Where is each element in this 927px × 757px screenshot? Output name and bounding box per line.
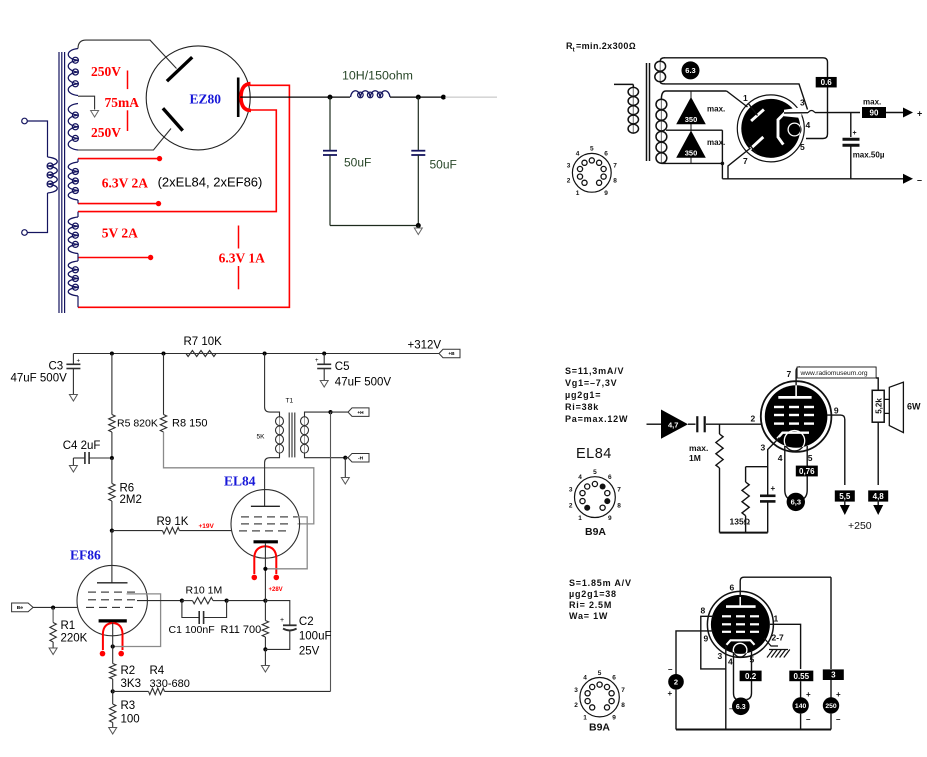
node EL84 cathode-R11 (263, 599, 267, 603)
capacitor 50uF (second) (411, 97, 425, 225)
svg-text:47uF 500V: 47uF 500V (11, 373, 68, 385)
label 6.3V 2A (102, 176, 149, 191)
EZ80-ds anode 1 lead (black over bar) (748, 103, 758, 116)
label 6.3V 1A (219, 250, 266, 265)
EL84-ds socket B9A (569, 469, 621, 522)
wire R5 bottom (111, 432, 113, 458)
EL84-ds label B9A (585, 526, 606, 538)
wire EF86 plate to R9 node (111, 531, 113, 583)
wire to choke (330, 96, 350, 98)
svg-text:6: 6 (608, 474, 612, 481)
label R11 700 (221, 624, 262, 636)
EL84-ds label EL84 (576, 446, 612, 462)
wire primary top lead (27, 121, 47, 157)
node rail-C5 (322, 352, 326, 356)
wire B+ rail (73, 353, 439, 355)
EL84-ds wire arrow to cap (688, 423, 696, 425)
svg-text:-H: -H (358, 455, 364, 461)
EF86-ds pin9 wire (676, 631, 714, 676)
svg-text:2: 2 (751, 414, 756, 424)
EF86-ds wire 0.55 to 140 (800, 681, 802, 697)
transformer T1 secondary winding (301, 412, 346, 458)
wire HV top lead to EZ80 anode 1 (78, 40, 177, 68)
EF86-ds plate bar (white) (726, 605, 756, 608)
power transformer primary winding (47, 157, 57, 193)
EZ80-ds anode 2 (white) (750, 137, 763, 149)
svg-text:8: 8 (621, 702, 625, 709)
EF86-ds label pin8 (701, 606, 706, 616)
EF86-ds disc 250 (823, 690, 841, 724)
svg-text:Ri= 2.5M: Ri= 2.5M (569, 600, 612, 610)
resistor R1 220K (50, 608, 56, 648)
EF86-ds tube outer circle (707, 591, 773, 657)
label 250V (upper) (91, 64, 121, 79)
EF86-ds label B9A (589, 722, 610, 734)
EF86-ds spec text (569, 578, 632, 621)
label EZ80 (190, 92, 222, 107)
label +19V (199, 523, 215, 530)
EL84 grid g2 (dashes) (241, 523, 288, 525)
EL84-ds box 4,8 (868, 490, 888, 501)
svg-text:8: 8 (617, 502, 621, 509)
svg-text:µg2g1=38: µg2g1=38 (569, 589, 617, 599)
EF86-ds label pin6 (730, 583, 735, 593)
EF86-ds label pin5 (750, 655, 755, 665)
tube EF86 envelope (77, 565, 147, 635)
wire secondary to +H (331, 411, 349, 413)
svg-text:90: 90 (870, 108, 879, 117)
choke 10H/150ohm (351, 91, 391, 98)
EZ80-ds socket B9A (567, 146, 617, 197)
svg-text:9: 9 (704, 634, 709, 644)
EL84 grid g1 (dashes) (239, 530, 286, 532)
EF86-ds wire 3 to 250 (830, 680, 832, 698)
EL84-ds box 0,76 (796, 466, 818, 477)
wire input to EF86 grid (33, 606, 77, 608)
EF86-ds cathode (white) (727, 640, 755, 645)
label R9 1K (157, 516, 189, 528)
svg-text:4: 4 (583, 675, 587, 682)
wire EL84 cathode down (264, 543, 266, 620)
wire 6.3V 2A top lead (red) (78, 159, 158, 162)
EL84-ds tube body (black) (765, 385, 828, 448)
wire 6.3V 1A bottom spine (77, 296, 79, 307)
svg-text:3: 3 (800, 98, 805, 108)
svg-text:5: 5 (800, 142, 805, 152)
resistor R5 820K (109, 415, 115, 433)
EZ80-ds wire to plus arrow (886, 112, 903, 114)
EL84-ds plate bar (white) (778, 396, 811, 399)
node filter ground (416, 223, 421, 228)
size marker 250V-250V (red) (127, 71, 129, 132)
svg-text:C5: C5 (335, 361, 350, 373)
svg-text:+: + (315, 358, 319, 364)
svg-text:R11 700: R11 700 (221, 624, 262, 636)
EF86-ds heater disc 6.3 (729, 698, 750, 716)
EZ80-ds 6.3V heater winding (655, 58, 666, 84)
svg-text:EZ80: EZ80 (190, 92, 222, 107)
EF86-ds ground hatches (2-7) (767, 650, 790, 658)
svg-text:7: 7 (787, 369, 792, 379)
svg-text:–: – (668, 665, 673, 674)
node R11-C2 bottom (263, 647, 267, 651)
svg-text:7: 7 (613, 163, 617, 170)
EL84-ds bottom rail (720, 532, 768, 534)
EL84-ds coupling capacitor (697, 416, 704, 432)
EF86-ds heater circle (outside part) (733, 643, 747, 657)
EF86 grid row3 (dashes) (86, 606, 133, 608)
ground (R11) (261, 666, 269, 673)
EZ80-ds transformer core (647, 63, 650, 161)
svg-text:0.55: 0.55 (794, 672, 810, 681)
label 10H/150ohm (342, 69, 413, 83)
label R3 (121, 700, 136, 712)
EL84-ds pin7 lead (796, 367, 800, 398)
EL84-ds heater disc 6,3 (787, 493, 805, 511)
resistor R4 330-680 (113, 688, 331, 694)
EZ80 cathode heater (red arc) (241, 84, 251, 111)
EL84-ds input arrow 4,7 (661, 410, 688, 439)
svg-text:R5 820K: R5 820K (117, 418, 158, 430)
svg-text:140: 140 (795, 703, 807, 710)
resistor R7 10K (186, 351, 216, 357)
flag Be (input) (12, 603, 33, 612)
wire primary bottom lead (27, 193, 47, 233)
ground (filter) (414, 226, 422, 235)
node rail-R8 (162, 352, 166, 356)
svg-text:4: 4 (728, 657, 733, 667)
capacitor C4 (73, 452, 112, 465)
resistor R8 150 (160, 415, 166, 433)
EL84-ds cathode capacitor (760, 484, 776, 533)
svg-text:+: + (806, 690, 811, 699)
node rail-R5 (110, 352, 114, 356)
svg-text:R4: R4 (150, 665, 165, 677)
EZ80-ds label pin3 (800, 98, 805, 108)
resistor R6 2M2 (109, 458, 115, 531)
wire choke to node (390, 96, 418, 98)
svg-text:2: 2 (569, 502, 573, 509)
EZ80-ds triangle 350 max (upper) (676, 97, 725, 124)
EL84 heater terminal (right) (274, 575, 280, 581)
EL84 heater (red) (254, 546, 276, 574)
EL84-ds label +250 (848, 520, 872, 532)
EF86-ds box 0.2 (740, 671, 762, 682)
EZ80-ds 6.3 heater disc (682, 61, 700, 79)
ground (C4) (69, 466, 77, 473)
EL84-ds heater circle (white inside) (784, 431, 804, 451)
svg-text:1M: 1M (689, 453, 701, 463)
svg-text:Pa=max.12W: Pa=max.12W (565, 414, 628, 424)
wire 5V winding top spine (77, 212, 79, 217)
svg-text:(2xEL84, 2xEF86): (2xEL84, 2xEF86) (158, 175, 263, 190)
svg-text:135Ω: 135Ω (730, 517, 751, 527)
EZ80-ds minus rail (722, 178, 903, 180)
EF86 heater (red) (103, 623, 123, 650)
node T1 secondary bottom (343, 456, 347, 460)
EZ80 cathode bar (237, 78, 240, 118)
svg-text:25V: 25V (299, 645, 320, 657)
label R5 820K (117, 418, 158, 430)
svg-text:+B: +B (448, 351, 455, 357)
label EF86 (amp) (70, 548, 101, 563)
EZ80-ds wire HV center tap (666, 129, 722, 131)
capacitor C3 (66, 354, 80, 395)
wire R10 to EL84 cathode node (227, 600, 266, 602)
resistor R3 100 (110, 691, 116, 727)
svg-text:5K: 5K (257, 434, 266, 441)
svg-text:0,76: 0,76 (799, 467, 815, 476)
svg-text:0.6: 0.6 (821, 78, 833, 87)
rectifier tube EZ80 envelope (146, 46, 250, 150)
EL84-ds cathode resistor 135 (742, 467, 768, 533)
label 330-680 (150, 678, 190, 690)
svg-text:350: 350 (685, 115, 698, 124)
EF86-ds wire 140 to rail (800, 714, 802, 730)
svg-text:250: 250 (825, 703, 837, 710)
svg-text:+250: +250 (848, 520, 872, 532)
flag -H (348, 453, 369, 462)
EZ80-ds tube outer circle (737, 95, 804, 162)
EZ80-ds label pin5 (800, 142, 805, 152)
svg-text:350: 350 (685, 149, 698, 158)
svg-text:4: 4 (778, 453, 783, 463)
EF86-ds pin4 lead (734, 652, 738, 700)
EF86 top-row to cathode wire (114, 594, 161, 647)
svg-text:10H/150ohm: 10H/150ohm (342, 69, 413, 83)
EF86 heater terminal (left) (100, 651, 106, 657)
power transformer primary terminal (bottom) (22, 230, 28, 236)
EZ80-ds box 0.6 (816, 77, 837, 88)
EF86-ds grid2-7 ground wire (764, 638, 778, 646)
label 250V (lower) (91, 125, 121, 140)
wire R8 top (163, 354, 165, 415)
label R10 1M (186, 584, 223, 596)
svg-text:Vg1=–7,3V: Vg1=–7,3V (565, 378, 617, 388)
flag +B (439, 349, 460, 358)
EZ80-ds label pin7 (743, 156, 748, 166)
EF86-ds label pin1 (774, 614, 779, 624)
EL84-ds arrow 4,8 down (873, 502, 883, 515)
label C2 (299, 616, 314, 628)
EZ80 anode plate 1 (167, 57, 192, 81)
label C1 100nF (169, 624, 215, 636)
feedback wire +H to R4 (330, 412, 332, 691)
EZ80-ds anode 2 lead (black over bar) (747, 142, 757, 154)
node R10 left (180, 599, 184, 603)
EL84-ds spec text (565, 366, 628, 424)
EZ80-ds label pin4 (806, 120, 811, 130)
EF86 heater terminal (right) (118, 651, 124, 657)
EL84-ds grid dashes row2 (white) (774, 414, 814, 416)
label R4 (150, 665, 165, 677)
label C3 value (11, 373, 68, 385)
svg-text:3: 3 (761, 443, 766, 453)
EZ80-ds box 90 (862, 107, 886, 118)
svg-text:8: 8 (701, 606, 706, 616)
label Rt=min.2x300ohm (566, 41, 636, 54)
svg-text:C4 2uF: C4 2uF (63, 440, 101, 452)
EZ80-ds plus arrow (903, 108, 922, 119)
svg-text:5: 5 (593, 469, 597, 476)
EL84-ds label 6W (907, 402, 921, 412)
EL84-ds pin3 wire (768, 438, 780, 496)
svg-text:R10 1M: R10 1M (186, 584, 223, 596)
svg-text:6.3V 2A: 6.3V 2A (102, 176, 149, 191)
svg-text:Wa= 1W: Wa= 1W (569, 611, 608, 621)
ground (-H) (341, 478, 349, 485)
rectifier heater winding 5V 2A (68, 217, 78, 254)
svg-text:1: 1 (583, 715, 587, 722)
svg-text:3K3: 3K3 (121, 678, 141, 690)
HV secondary winding 250V (lower half) (68, 104, 78, 151)
svg-text:9: 9 (604, 190, 608, 197)
svg-text:9: 9 (834, 406, 839, 416)
svg-text:C1 100nF: C1 100nF (169, 624, 215, 636)
power transformer primary terminal (top) (22, 118, 28, 124)
label R8 150 (172, 418, 207, 430)
EF86-ds wire 250 to rail (830, 714, 832, 730)
HV secondary winding 250V (upper half) (68, 49, 78, 96)
capacitor C1 100nF (parallel loop) (182, 601, 227, 624)
wire EF86 cathode (112, 623, 114, 664)
flag +H (348, 408, 369, 417)
EL84-ds grid dashes row3 (white) (774, 422, 814, 424)
node T1 secondary top (328, 410, 332, 414)
svg-text:Be: Be (17, 605, 23, 611)
svg-text:+: + (280, 617, 284, 624)
svg-text:www.radiomuseum.org: www.radiomuseum.org (800, 370, 868, 377)
svg-text:T1: T1 (286, 398, 294, 405)
svg-text:6: 6 (612, 675, 616, 682)
svg-text:2: 2 (567, 178, 571, 185)
ground (C3) (69, 395, 77, 402)
svg-text:max.: max. (863, 98, 881, 107)
label 2M2 (120, 494, 142, 506)
EL84 plate bar (251, 505, 280, 507)
EL84 suppressor to cathode wire (267, 517, 308, 569)
svg-text:C3: C3 (49, 361, 64, 373)
svg-text:+28V: +28V (269, 587, 283, 593)
EL84-ds resistor 5,2k box (872, 390, 884, 422)
svg-text:1: 1 (576, 190, 580, 197)
EZ80-ds cathode (white) (778, 113, 785, 145)
ground (HV center tap) (91, 111, 99, 118)
heater winding 6.3V 1A (68, 261, 78, 296)
svg-text:3: 3 (569, 487, 573, 494)
svg-text:+H: +H (357, 410, 364, 416)
node EF86 cathode (111, 644, 115, 648)
svg-text:6.3: 6.3 (685, 66, 695, 75)
svg-text:=min.2x300Ω: =min.2x300Ω (576, 41, 636, 51)
EZ80-ds wire to minus rail (721, 130, 723, 179)
node B+ out (441, 95, 446, 100)
transformer T1 core (289, 413, 295, 458)
svg-text:4: 4 (806, 120, 811, 130)
svg-text:1: 1 (774, 614, 779, 624)
svg-text:+: + (668, 689, 673, 698)
svg-text:EL84: EL84 (576, 446, 612, 462)
svg-text:220K: 220K (61, 633, 88, 645)
svg-text:4: 4 (576, 150, 580, 157)
svg-text:5,5: 5,5 (839, 492, 851, 501)
capacitor 50uF (first) (323, 97, 337, 225)
node R10 right (225, 599, 229, 603)
EL84-ds radiomuseum box (797, 367, 876, 378)
EF86-ds top wire pin6 (744, 576, 831, 578)
svg-text:+: + (771, 484, 776, 493)
label 5V 2A (102, 225, 138, 240)
wire filter output (418, 96, 442, 98)
EF86-ds socket B9A (574, 670, 625, 722)
EZ80-ds wire cathode output (784, 112, 860, 115)
svg-text:7: 7 (617, 487, 621, 494)
svg-text:+: + (77, 359, 81, 365)
svg-text:6: 6 (730, 583, 735, 593)
svg-text:250V: 250V (91, 64, 121, 79)
svg-text:330-680: 330-680 (150, 678, 190, 690)
EF86-ds label pin4 (728, 657, 733, 667)
EZ80-ds wire anode1 diagonal (727, 91, 748, 107)
svg-text:5: 5 (598, 670, 602, 677)
resistor R9 1K (112, 527, 232, 533)
svg-text:+: + (853, 130, 857, 137)
svg-text:1: 1 (743, 93, 748, 103)
label C4 2uF (63, 440, 101, 452)
node filter output (416, 95, 421, 100)
resistor R11 700 (262, 621, 268, 650)
EL84-ds grid dashes row1 (white) (774, 406, 814, 408)
EZ80-ds node hv-tube-junction (721, 162, 725, 166)
EL84-ds label pin9 (834, 406, 839, 416)
capacitor C5 (315, 354, 331, 381)
svg-text:6,3: 6,3 (791, 498, 801, 507)
EZ80-ds anode 1 (white) (751, 110, 764, 121)
svg-text:max.: max. (707, 138, 725, 147)
EL84 heater terminal (left) (252, 575, 258, 581)
EZ80 anode plate 2 (163, 108, 183, 130)
svg-text:3: 3 (718, 651, 723, 661)
svg-text:EF86: EF86 (70, 548, 101, 563)
EZ80-ds filter capacitor (843, 113, 860, 180)
EL84-ds wire top to speaker branch (876, 378, 878, 390)
svg-text:R2: R2 (121, 665, 136, 677)
wire B+ stub (445, 96, 497, 98)
EL84-ds heater circle (outside part) (784, 431, 804, 451)
svg-text:4,8: 4,8 (873, 492, 885, 501)
label R2 (121, 665, 136, 677)
EF86-ds bottom rail (676, 729, 831, 731)
EF86 cathode bar (99, 619, 127, 622)
svg-text:100uF: 100uF (299, 631, 332, 643)
EF86-ds grid dashes row3 (white) (722, 631, 759, 633)
EF86-ds pin5 lead (747, 650, 752, 700)
svg-text:+: + (836, 690, 841, 699)
capacitor C2 100uF (265, 601, 296, 650)
svg-text:5: 5 (808, 453, 813, 463)
wire R5 top (111, 354, 113, 415)
svg-text:–: – (917, 175, 922, 185)
wire HV bottom lead to EZ80 anode 2 (78, 129, 171, 151)
node filter input (328, 95, 333, 100)
EF86 grid row1 (dashes) (88, 591, 135, 593)
svg-text:2: 2 (574, 702, 578, 709)
svg-text:+: + (917, 109, 922, 119)
EZ80-ds label max.50u (853, 151, 885, 160)
svg-text:6.3V 1A: 6.3V 1A (219, 250, 266, 265)
EL84-ds pin5 lead (801, 446, 807, 500)
resistor R10 1M (182, 597, 227, 603)
